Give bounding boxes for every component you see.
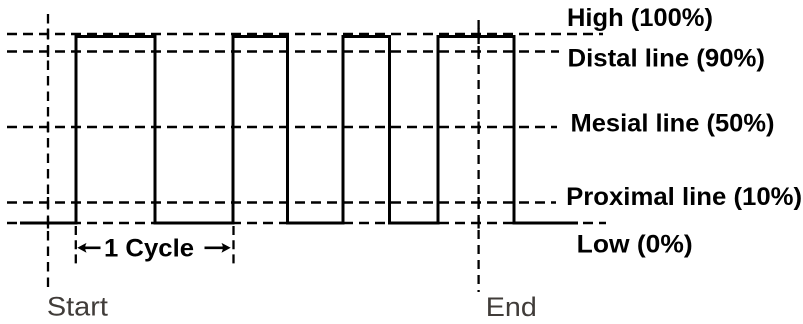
cycle right boundary dashed line: [232, 226, 234, 264]
svg-text:Low (0%): Low (0%): [577, 230, 693, 258]
svg-text:Start: Start: [47, 292, 109, 322]
start vertical dashed line: [47, 14, 49, 290]
svg-text:End: End: [486, 292, 537, 322]
svg-text:Mesial line (50%): Mesial line (50%): [571, 110, 775, 138]
cycle left boundary dashed line: [75, 226, 77, 264]
low reference dashed line (0%): [7, 222, 606, 225]
square waveform: [20, 37, 578, 224]
svg-text:Distal line (90%): Distal line (90%): [568, 45, 766, 73]
svg-text:High (100%): High (100%): [567, 4, 713, 32]
cycle right arrow: [205, 247, 227, 250]
svg-text:1 Cycle: 1 Cycle: [104, 235, 194, 263]
proximal reference dashed line (10%): [7, 201, 556, 204]
high reference dashed line (100%): [7, 33, 603, 36]
distal reference dashed line (90%): [7, 50, 559, 53]
end line cross ticks: [477, 29, 479, 229]
mesial reference dashed line (50%): [7, 126, 557, 129]
svg-text:Proximal line (10%): Proximal line (10%): [566, 183, 802, 211]
end vertical dashed line: [477, 20, 479, 292]
cycle left arrow: [80, 247, 101, 250]
start line cross ticks: [47, 29, 49, 229]
